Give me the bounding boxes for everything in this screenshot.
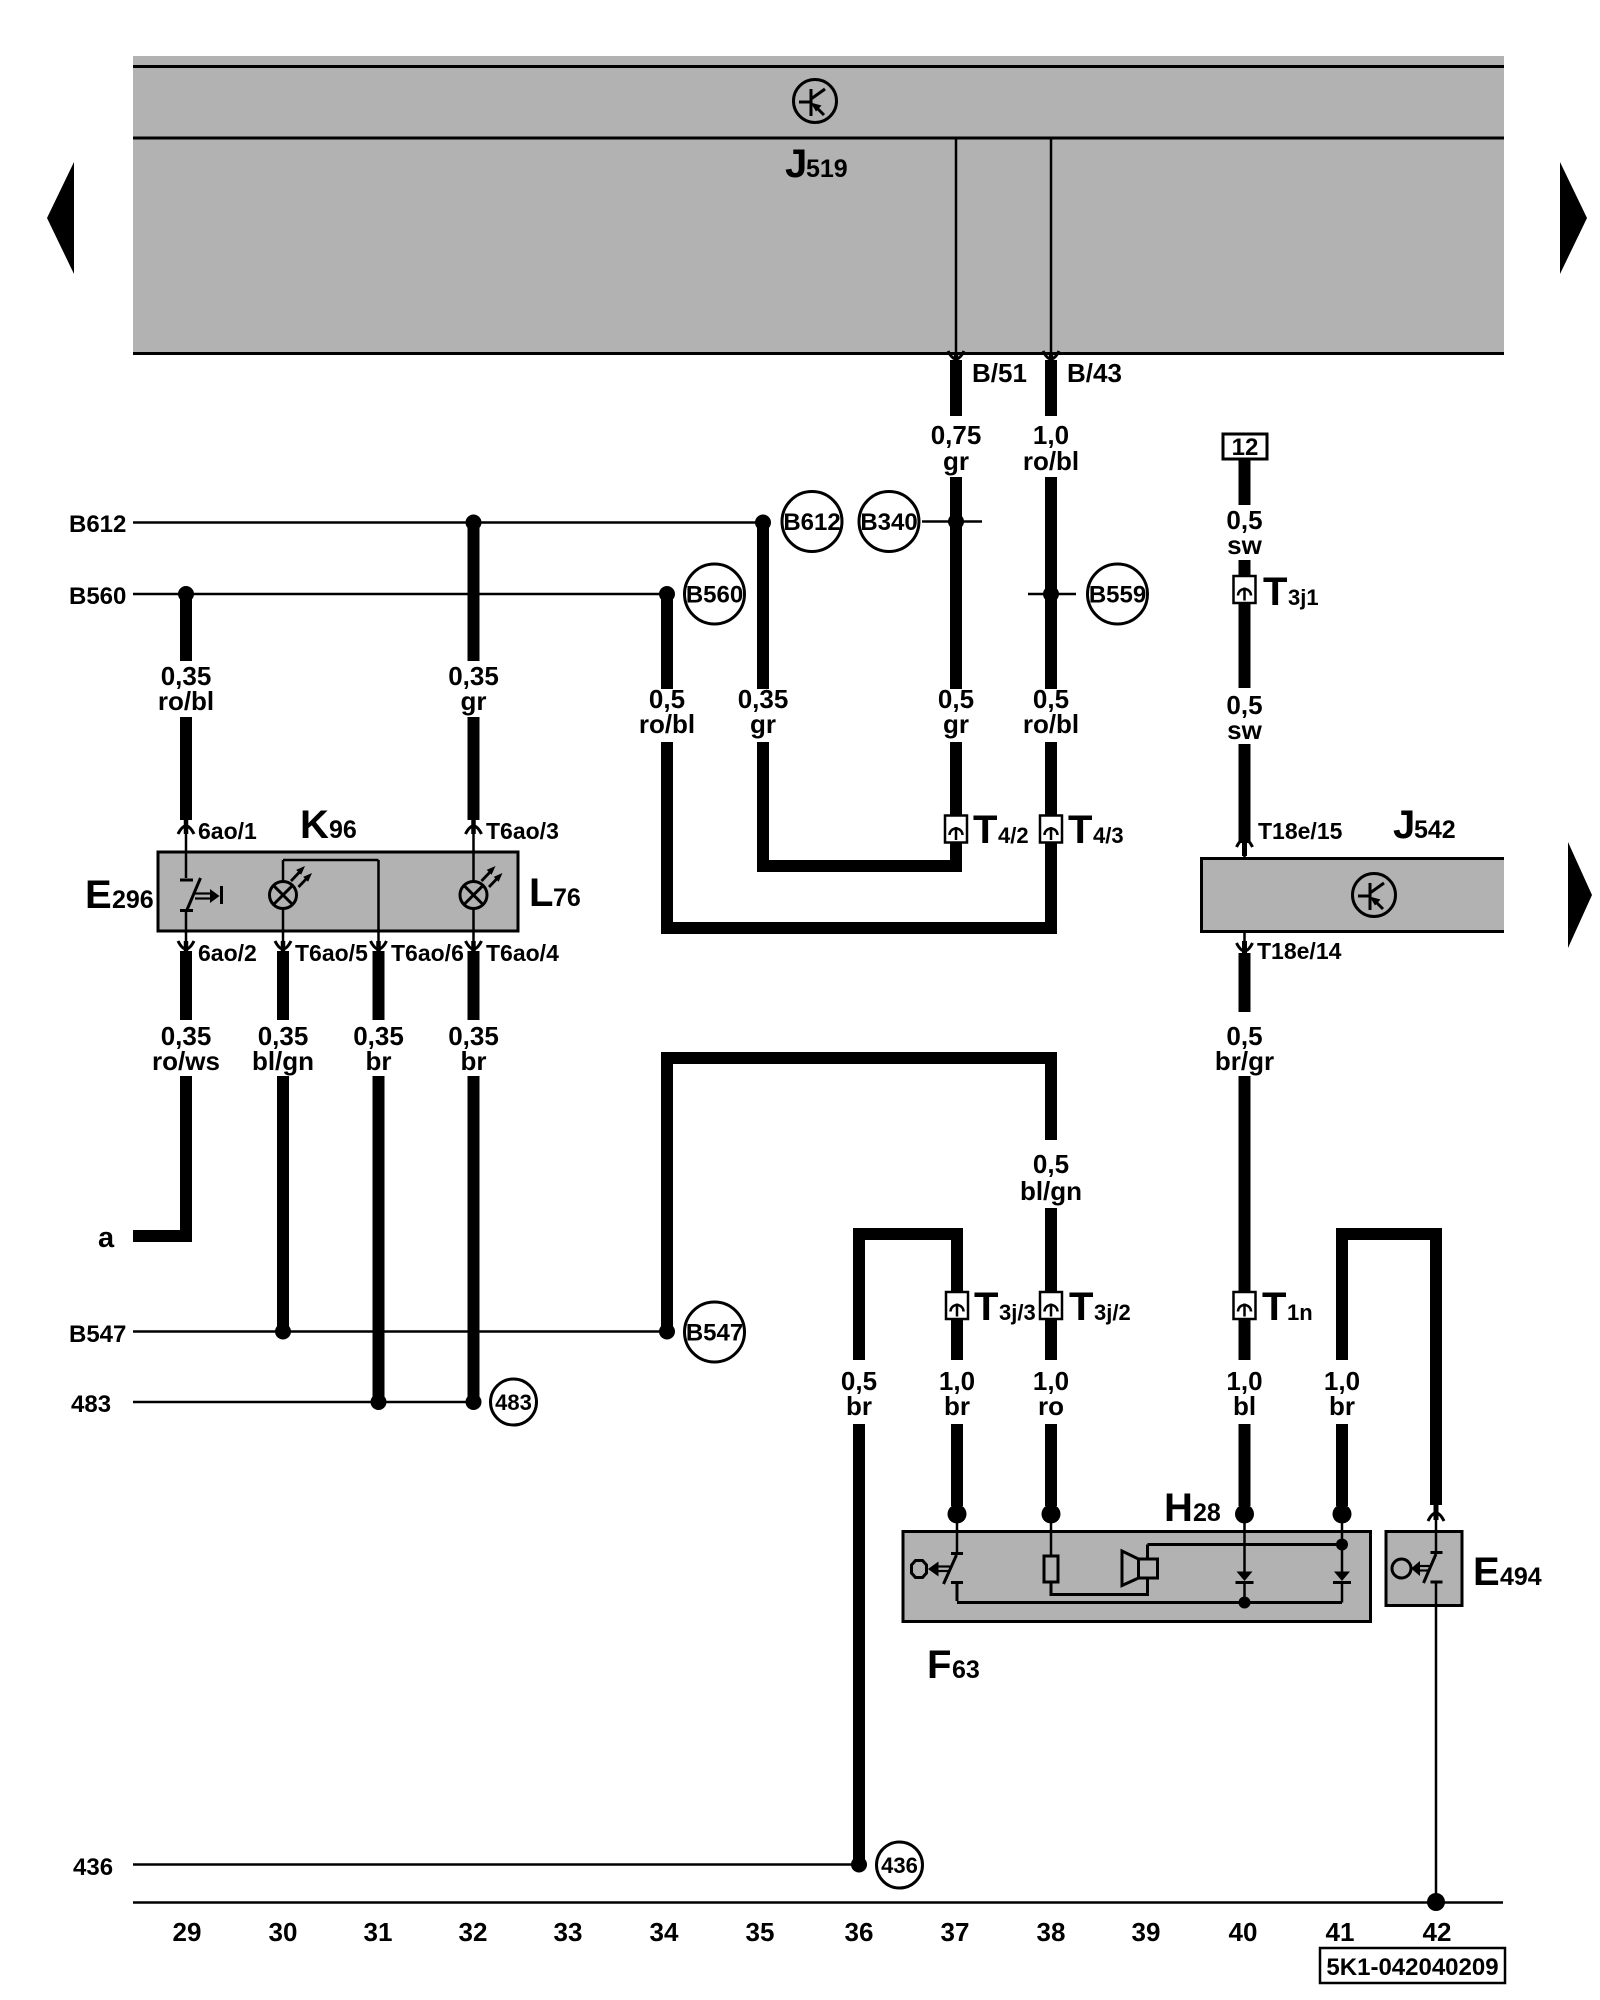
label F63 [927,1643,980,1687]
svg-text:gr: gr [461,686,487,716]
pin 6ao/1 [178,818,257,852]
svg-text:J: J [785,142,807,186]
value label 0,5 bl/gn [1020,1149,1082,1206]
svg-text:E: E [1473,1550,1500,1594]
diode 1 in H28 [1236,1514,1254,1603]
junction on B560 at column 29 [178,586,194,602]
wire 0,5 ro/bl column 34 upper [661,596,673,689]
junction on 483 at column 31 [371,1394,387,1410]
label J542 [1393,803,1456,847]
svg-text:32: 32 [459,1917,488,1947]
wire column 32 to node 483 [468,1076,480,1402]
svg-text:L: L [529,871,553,915]
svg-text:42: 42 [1423,1917,1452,1947]
internal top rail in H28 [1148,1545,1343,1560]
control unit J519 onboard supply control unit box [133,56,1504,355]
svg-text:35: 35 [746,1917,775,1947]
terminal 12 box [1223,434,1267,461]
connector T4/2 [945,808,1029,852]
svg-text:6ao/1: 6ao/1 [198,818,257,844]
value label 0,5 sw lower [1226,690,1262,745]
wire column 41-42 U-turn to E494 [1342,1234,1436,1505]
horn resistor symbol [1044,1514,1148,1595]
junction on B560 at column 34 [659,586,675,602]
wire 0,5 sw to pin T18e/15 [1239,744,1251,843]
svg-text:63: 63 [952,1656,980,1684]
svg-text:30: 30 [269,1917,298,1947]
pin T6ao/3 [466,818,559,852]
wire inside J519 to pin B/51 [955,138,958,352]
svg-text:sw: sw [1227,715,1262,745]
svg-text:31: 31 [364,1917,393,1947]
wire 0,35 ro/ws column 29 below K96 [180,951,192,1020]
svg-text:gr: gr [943,446,969,476]
node line 436 [73,1854,859,1881]
label L76 [529,871,581,915]
wire T1n to H28 pin [1239,1319,1251,1506]
wire 0,5 br/gr below T18e/14 [1239,953,1251,1012]
svg-text:T18e/14: T18e/14 [1257,938,1342,964]
value label 1,0 br column 37 [939,1366,975,1421]
wire 0,35 gr column 32 upper [468,525,480,661]
svg-text:H: H [1164,1486,1193,1530]
svg-text:483: 483 [495,1390,532,1415]
wire 1,0 ro/bl lower segment [1045,477,1057,689]
pin T6ao/4 [466,931,560,966]
svg-text:41: 41 [1326,1917,1355,1947]
svg-text:5K1-042040209: 5K1-042040209 [1326,1954,1498,1981]
svg-text:37: 37 [941,1917,970,1947]
stub line B340 to wire [922,520,982,523]
horn assembly H28 F63 box [903,1532,1371,1622]
svg-text:E: E [85,873,112,917]
pin at E494 [1428,1505,1444,1552]
junction on B612 at column 35 [755,515,771,531]
switch module K96 box [158,852,518,931]
bus connection K symbol in J519 [794,80,837,123]
wire column 35 U-turn to T4/2 [763,742,956,866]
svg-text:436: 436 [73,1854,113,1881]
junction on B547 at column 30 [275,1324,291,1340]
wire 0,5 sw below T3j1 [1239,603,1251,688]
svg-text:T6ao/4: T6ao/4 [486,940,559,966]
connector T3j1 [1234,570,1319,614]
svg-text:gr: gr [750,709,776,739]
svg-text:3j/2: 3j/2 [1094,1300,1131,1325]
junction on 436 at column 36 [851,1857,867,1873]
wire 0,75 gr from B/51 upper segment [950,360,962,416]
internal junction on top rail [1336,1539,1348,1551]
svg-text:33: 33 [554,1917,583,1947]
wire 0,35 gr to pin T6ao/3 [468,717,480,820]
stub line B559 to wire [1028,593,1076,596]
value label 0,35 gr [448,661,499,716]
svg-text:4/2: 4/2 [998,823,1029,848]
connector T3j/2 [1040,1285,1131,1329]
junction B559 on ro/bl wire [1043,586,1059,602]
pin B/43 [1043,351,1122,388]
wire 0,35 ro/bl to pin 6ao/1 [180,717,192,820]
page arrow right top [1560,162,1587,274]
svg-text:40: 40 [1229,1917,1258,1947]
node circle 436 [877,1842,923,1888]
value label 1,0 br column 41 [1324,1366,1360,1421]
svg-text:28: 28 [1193,1499,1221,1527]
svg-text:T6ao/5: T6ao/5 [295,940,368,966]
svg-text:bl/gn: bl/gn [252,1046,314,1076]
svg-text:542: 542 [1414,816,1456,844]
svg-text:ro/bl: ro/bl [158,686,214,716]
illumination lamp L76 symbol [460,852,503,931]
svg-text:B612: B612 [783,509,840,536]
junction on 483 at column 32 [466,1394,482,1410]
svg-text:ro/bl: ro/bl [1023,446,1079,476]
wire column 31 to node 483 [373,1076,385,1402]
svg-text:T: T [973,808,997,852]
pin dot column 37 at F63 [948,1505,967,1524]
svg-text:436: 436 [881,1853,918,1878]
svg-text:296: 296 [112,886,154,914]
pin T6ao/6 [371,931,464,966]
svg-text:J: J [1393,803,1415,847]
svg-text:29: 29 [173,1917,202,1947]
junction E494 on ground rail [1427,1893,1445,1911]
warning lamp K96 symbol [270,860,313,931]
value label 0,5 ro/bl column 34 [639,684,695,739]
svg-text:3j/3: 3j/3 [999,1300,1036,1325]
svg-text:39: 39 [1132,1917,1161,1947]
label E296 [85,873,154,917]
wire 0,35 br column 31 below K96 [373,951,385,1020]
wire column 29 to terminal a [133,1076,186,1236]
bus connection K symbol in J542 [1353,874,1396,917]
control unit J542 box [1200,857,1504,933]
wire 0,35 gr column 35 upper [757,525,769,689]
wire 0,35 ro/bl column 29 upper [180,596,192,661]
svg-text:B340: B340 [860,509,917,536]
junction B340 on gr wire [948,514,964,530]
svg-text:F: F [927,1643,951,1687]
node circle 483 [491,1379,537,1425]
junction on B547 at column 34 [659,1324,675,1340]
svg-text:br: br [944,1391,970,1421]
value label 0,5 br/gr [1215,1021,1274,1076]
svg-text:br: br [846,1391,872,1421]
svg-text:4/3: 4/3 [1093,823,1124,848]
pin dot column 41 at H28 [1333,1505,1352,1524]
wire 0,5 ro/bl to connector T4/3 [1045,742,1057,815]
svg-text:T6ao/6: T6ao/6 [391,940,464,966]
value label 0,5 br column 36 [841,1366,877,1421]
wire 0,35 bl/gn column 30 below K96 [277,951,289,1020]
svg-text:519: 519 [806,155,848,183]
label J519 [785,142,848,186]
value label 0,35 bl/gn [252,1021,314,1076]
internal bottom rail in H28 [957,1601,1342,1604]
wire column 30 to node B547 [277,1076,289,1332]
svg-text:sw: sw [1227,530,1262,560]
label K96 [300,803,357,847]
svg-text:a: a [98,1222,115,1254]
pin T18e/15 [1237,818,1343,860]
connector T4/3 [1040,808,1124,852]
svg-text:0,5: 0,5 [1033,1149,1069,1179]
pin T6ao/5 [275,931,368,966]
svg-text:B/43: B/43 [1067,358,1122,388]
svg-text:T18e/15: T18e/15 [1258,818,1343,844]
connector T1n [1234,1285,1313,1329]
svg-text:B/51: B/51 [972,358,1027,388]
connector T3j/3 [946,1285,1036,1329]
svg-text:483: 483 [71,1391,111,1418]
svg-text:ro: ro [1038,1391,1064,1421]
svg-text:gr: gr [943,709,969,739]
node circle B340 [859,492,919,552]
node line 483 [71,1391,474,1418]
svg-text:1n: 1n [1287,1300,1313,1325]
svg-text:T: T [974,1285,998,1329]
wire column 36 U-turn to T3j/3 [859,1234,957,1360]
svg-text:br: br [461,1046,487,1076]
svg-text:T: T [1069,1285,1093,1329]
switch E494 box [1386,1532,1462,1606]
wire column 34 U-turn to T4/3 [667,742,1051,928]
node circle B547 [685,1302,745,1362]
svg-text:96: 96 [329,816,357,844]
pin dot column 40 at H28 [1235,1505,1254,1524]
value label 0,35 br column 31 [353,1021,404,1076]
svg-text:B547: B547 [69,1321,126,1348]
svg-text:ro/bl: ro/bl [1023,709,1079,739]
svg-text:bl/gn: bl/gn [1020,1176,1082,1206]
value label 1,0 ro/bl [1023,420,1079,476]
svg-text:B559: B559 [1089,582,1146,609]
node circle B560 [685,564,745,624]
wire column 36 to node 436 [853,1424,865,1865]
value label 0,5 ro/bl column 38 [1023,684,1079,739]
value label 0,5 gr column 37 [938,684,974,739]
label E494 [1473,1550,1542,1594]
pin 6ao/2 [178,931,257,966]
ground rail line [133,1901,1503,1904]
wire 1,0 ro/bl from B/43 upper segment [1045,360,1057,416]
node circle B612 [782,492,842,552]
svg-text:38: 38 [1037,1917,1066,1947]
node line B612 [69,511,763,538]
pin dot column 38 at F63 [1042,1505,1061,1524]
svg-text:34: 34 [650,1917,679,1947]
value label 1,0 bl column 40 [1226,1366,1262,1421]
wire 0,5 sw upper segment [1239,459,1251,505]
svg-text:ro/ws: ro/ws [152,1046,220,1076]
wire 0,5 bl/gn from node B547 riser [667,1058,1051,1332]
value label 0,5 sw [1226,505,1262,560]
svg-text:B547: B547 [686,1320,743,1347]
svg-text:T: T [1263,570,1287,614]
svg-text:36: 36 [845,1917,874,1947]
junction on B612 at column 32 [466,515,482,531]
svg-text:B560: B560 [69,583,126,610]
node circle B559 [1088,564,1148,624]
switch F63 symbol in H28 [912,1514,964,1601]
wire 0,75 gr lower segment to T4/2 [950,477,962,689]
wire 0,5 gr to connector T4/2 [950,742,962,815]
page arrow left [47,162,74,274]
value label 1,0 ro column 38 [1033,1366,1069,1421]
diagram number plate 5K1-042040209 [1320,1948,1505,1983]
wire 0,5 bl/gn to connector T3j/2 [1045,1208,1057,1293]
wire 0,5 br/gr to connector T1n [1239,1076,1251,1293]
wire 0,5 sw to connector T3j1 [1239,560,1251,578]
wire E494 to ground rail [1435,1583,1438,1902]
switch E296 symbol [180,852,222,931]
horn speaker symbol [1122,1551,1158,1586]
svg-text:12: 12 [1232,434,1259,461]
svg-text:T6ao/3: T6ao/3 [486,818,559,844]
svg-text:T: T [1262,1285,1286,1329]
pin B/51 [948,351,1027,388]
pin T18e/14 [1237,932,1342,965]
svg-text:br/gr: br/gr [1215,1046,1274,1076]
wire 0,35 br column 32 below K96 [468,951,480,1020]
svg-text:br: br [1329,1391,1355,1421]
svg-text:K: K [300,803,329,847]
wire column 41 to H28 pin [1336,1424,1348,1506]
label H28 [1164,1486,1221,1530]
svg-text:B612: B612 [69,511,126,538]
wire T3j/3 to horn F63 pin [951,1319,963,1506]
svg-text:bl: bl [1233,1391,1256,1421]
wire T3j/2 to horn pin [1045,1319,1057,1506]
svg-text:76: 76 [553,884,581,912]
value label 0,35 ro/ws [152,1021,220,1076]
svg-text:B560: B560 [686,582,743,609]
internal wire from lamp K96 to pin T6ao/6 [283,860,379,931]
value label 0,75 gr [931,420,982,476]
svg-text:T: T [1068,808,1092,852]
wire inside J519 to pin B/43 [1050,138,1053,352]
value label 0,35 ro/bl [158,661,214,716]
svg-text:494: 494 [1500,1563,1542,1591]
svg-text:ro/bl: ro/bl [639,709,695,739]
node line B560 [69,583,667,610]
diode 2 in H28 [1333,1514,1351,1603]
page arrow right middle [1568,842,1592,948]
svg-text:3j1: 3j1 [1288,585,1319,610]
svg-text:6ao/2: 6ao/2 [198,940,257,966]
node line B547 [69,1321,667,1348]
svg-text:br: br [366,1046,392,1076]
internal junction on bottom rail [1239,1597,1251,1609]
value label 0,35 br column 32 [448,1021,499,1076]
switch E494 symbol [1392,1553,1443,1584]
value label 0,35 gr column 35 [738,684,789,739]
